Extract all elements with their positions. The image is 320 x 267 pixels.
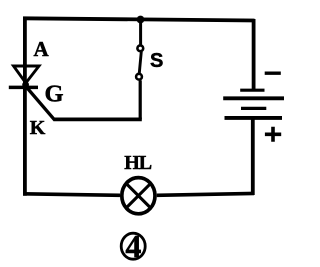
thyristor triangle: [14, 66, 40, 83]
battery plate 2 long: [223, 96, 284, 100]
wire junction down to switch top contact: [139, 20, 142, 46]
lamp HL circle: [122, 178, 155, 214]
wire top horizontal: [23, 18, 256, 20]
battery minus sign: [265, 72, 281, 75]
wire right vertical upper (top wire to battery negative plate): [252, 19, 256, 90]
thyristor apex junction blob: [22, 81, 29, 88]
svg-text:A: A: [34, 37, 50, 61]
thyristor cathode bar: [9, 86, 38, 90]
wire bottom right segment (lamp to corner): [157, 193, 254, 195]
battery plate 3 short: [241, 107, 266, 110]
wire bottom left segment (corner to lamp): [23, 194, 120, 196]
switch S blade: [139, 52, 141, 74]
svg-text:K: K: [30, 117, 46, 139]
battery plate 4 long positive: [225, 116, 283, 120]
battery plus sign: [265, 127, 281, 142]
switch S top contact circle: [137, 45, 143, 51]
wire switch bottom contact down to gate corner: [139, 80, 142, 119]
svg-text:HL: HL: [124, 152, 152, 174]
wire gate diagonal to thyristor gate: [27, 88, 55, 120]
lamp HL cross: [126, 183, 151, 208]
wire gate horizontal run: [54, 118, 142, 122]
wire left vertical (anode side down through thyristor to bottom corner): [23, 17, 27, 196]
svg-text:S: S: [150, 50, 163, 72]
switch S bottom contact circle: [136, 74, 142, 80]
figure number circle: [121, 233, 145, 259]
node junction dot at switch tap: [137, 16, 145, 24]
wire right vertical lower (battery positive plate to bottom corner): [251, 117, 255, 195]
svg-text:4: 4: [125, 228, 141, 264]
svg-text:G: G: [45, 80, 64, 107]
battery plate 1 short negative: [240, 89, 264, 92]
